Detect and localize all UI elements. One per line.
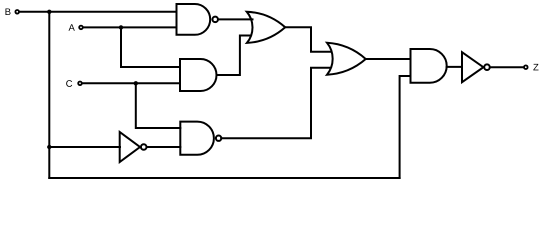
not gate U8 bubble [484,64,490,70]
wire A horizontal to NAND1 [84,26,177,28]
label A [69,24,75,31]
wire U1 output to OR1 [218,18,253,20]
wire U6 output to AND7 [366,58,411,60]
node junction B top [47,10,51,14]
not gate U4 bubble [141,144,147,150]
terminal C [78,82,82,86]
wire U5 output to OR2 lower input [221,68,329,138]
nand gate U5 bubble [216,136,221,141]
wire U4 output to NAND5 [147,146,181,148]
wire U7 output to NOT2 [447,66,462,68]
nand gate U1 body [177,4,211,35]
wire U3 output to OR2 top input [285,27,330,51]
terminal A [79,26,83,30]
or gate U6 body [327,43,366,75]
terminal Z [524,65,528,69]
wire U2 output to OR1 lower input [217,36,251,76]
wire C horizontal to AND2 [83,82,180,84]
nand gate U1 bubble [212,17,218,23]
label B [5,8,10,15]
and gate U2 body [180,59,217,91]
wire A branch to AND2 [121,27,180,67]
wire C branch to NAND3 [136,83,181,128]
and gate U7 body [411,49,447,83]
node junction B lower [47,145,51,149]
wire B to NOT1 input [49,146,120,148]
not gate U8 body [462,52,483,82]
nand gate U5 body [180,122,214,155]
wire B vertical main [48,12,50,178]
label Z [533,64,538,71]
node junction C [134,81,138,85]
wire feedback riser to AND4 [400,76,411,178]
wire bottom feedback horizontal [49,177,399,179]
not gate U4 body [120,132,140,162]
label C [66,80,72,87]
wire B horizontal to NAND1 [20,11,177,13]
wire U8 output to Z [490,66,524,68]
terminal B [15,10,19,14]
or gate U3 body [247,12,286,43]
node junction A [119,25,123,29]
